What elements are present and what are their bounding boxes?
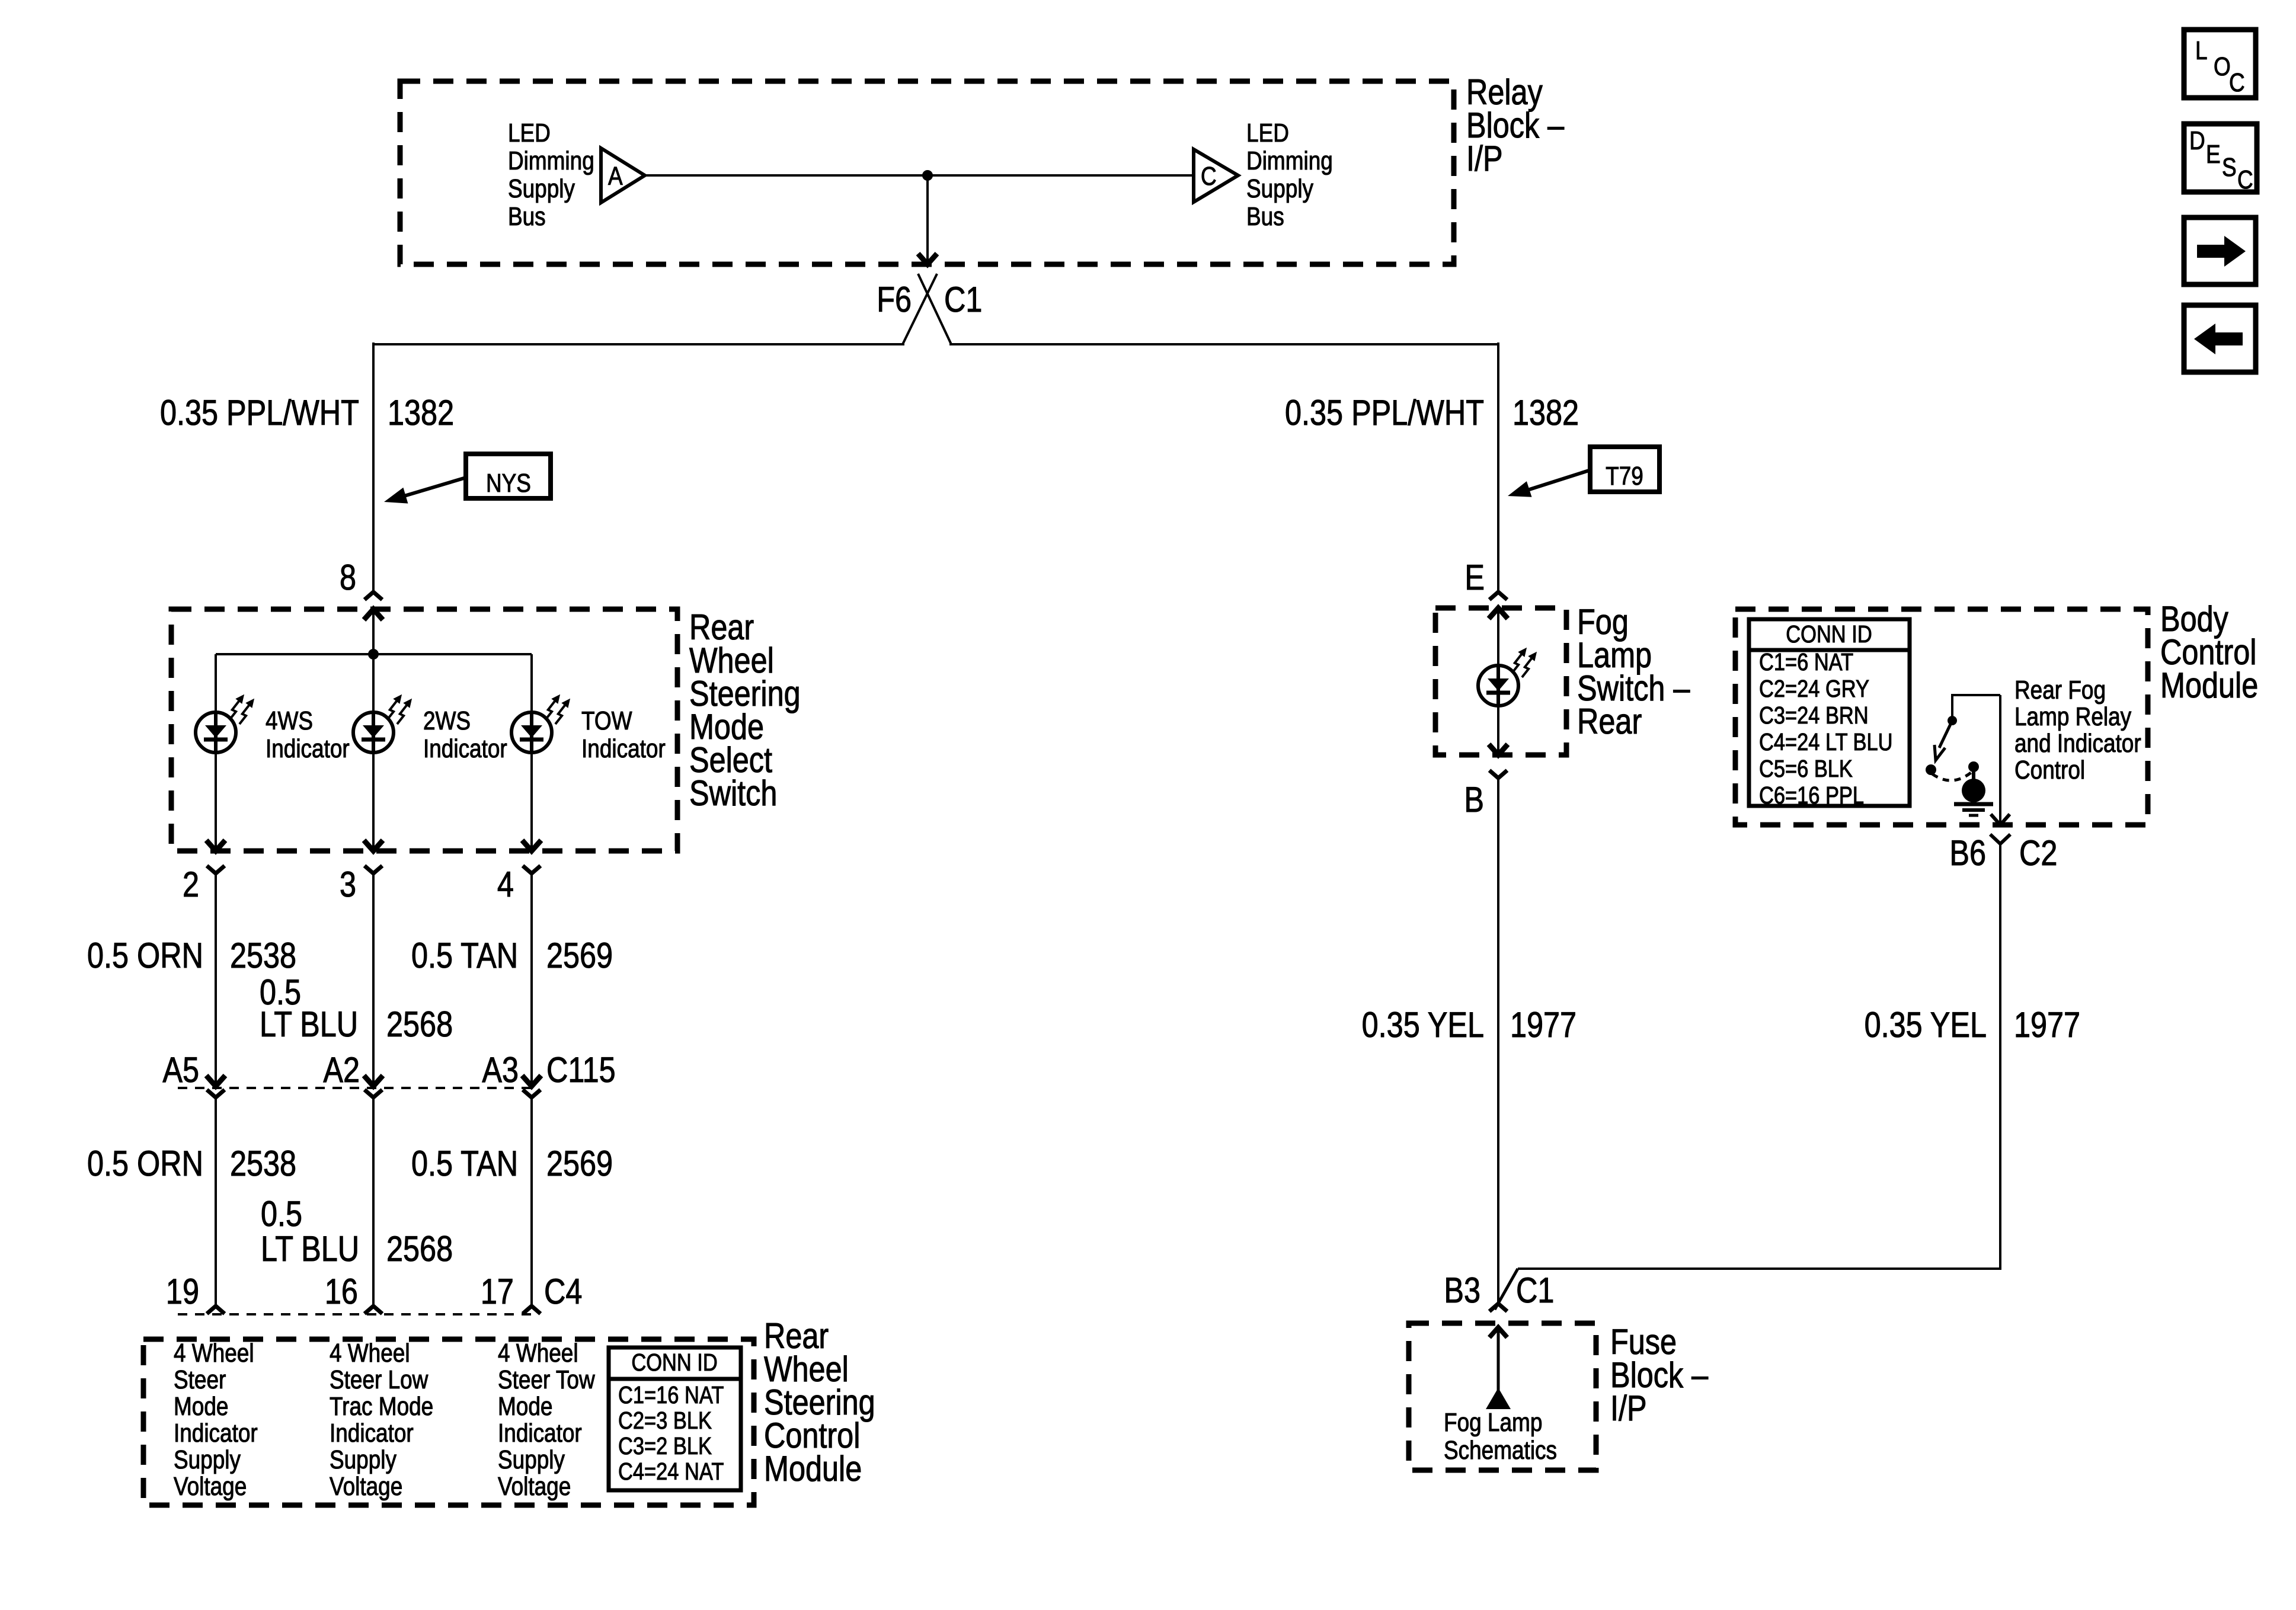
svg-text:A3: A3 <box>482 1050 519 1090</box>
svg-text:C4: C4 <box>544 1272 582 1311</box>
svg-text:Bus: Bus <box>508 201 546 231</box>
bus triangle A <box>601 148 645 203</box>
svg-text:LED: LED <box>508 118 551 148</box>
wire LED supply rail <box>216 653 532 655</box>
relay block I/P dashed box <box>400 81 1454 264</box>
svg-text:2568: 2568 <box>386 1004 453 1044</box>
svg-text:0.5: 0.5 <box>261 1194 302 1234</box>
svg-text:17: 17 <box>481 1272 514 1311</box>
svg-text:2WS: 2WS <box>423 706 471 735</box>
svg-text:C1: C1 <box>944 280 982 319</box>
svg-text:Supply: Supply <box>1246 174 1314 203</box>
wire A2 to pin16 <box>372 1097 375 1306</box>
BCM internal wire down to B6 <box>1999 695 2001 823</box>
RWS CONN ID table box <box>609 1347 741 1490</box>
svg-text:A: A <box>608 161 623 191</box>
male pin arrow at C115 A3 <box>522 1076 541 1086</box>
DESC nav box <box>2184 124 2257 192</box>
wire pin2 to C115 <box>215 873 217 1084</box>
svg-text:C: C <box>2229 68 2245 97</box>
male pin arrow exiting box pin3 <box>364 840 383 851</box>
svg-text:I/P: I/P <box>1466 139 1503 178</box>
svg-text:S: S <box>2222 152 2237 182</box>
junction dot on dimming bus <box>922 170 933 181</box>
wire A3 to pin17 <box>530 1097 533 1306</box>
svg-text:Voltage: Voltage <box>174 1471 247 1501</box>
connector F6/C1 crossing legs <box>918 274 951 344</box>
female connector C115 A3 <box>523 1090 541 1097</box>
svg-text:C2=24 GRY: C2=24 GRY <box>1759 676 1869 702</box>
male pin arrow at C115 A2 <box>364 1076 383 1086</box>
svg-text:C3=2 BLK: C3=2 BLK <box>618 1433 712 1459</box>
wire left vertical drop <box>372 343 375 591</box>
female connector below pin4 <box>523 866 541 873</box>
male pin arrow exiting box pin4 <box>522 840 541 851</box>
svg-text:Module: Module <box>764 1449 862 1489</box>
C115 in-line connector dashed line <box>178 1087 536 1089</box>
wire right vertical drop <box>1497 343 1499 591</box>
wire to 4WS LED <box>215 654 217 851</box>
female connector C115 A2 <box>364 1090 382 1097</box>
wire out of fog lamp LED <box>1497 705 1499 755</box>
svg-text:TOW: TOW <box>581 706 632 735</box>
svg-text:1977: 1977 <box>1510 1005 1576 1045</box>
svg-text:2538: 2538 <box>230 1144 296 1183</box>
junction dot inside switch box <box>368 649 379 660</box>
svg-text:Lamp Relay: Lamp Relay <box>2014 702 2132 731</box>
svg-text:E: E <box>1464 558 1485 597</box>
svg-text:Trac Mode: Trac Mode <box>330 1391 433 1421</box>
svg-text:C1=6 NAT: C1=6 NAT <box>1759 649 1853 676</box>
svg-text:L: L <box>2195 36 2208 65</box>
wire A5 to pin19 <box>215 1097 217 1306</box>
svg-text:2538: 2538 <box>230 936 296 975</box>
svg-text:2569: 2569 <box>546 936 613 975</box>
svg-text:0.5 ORN: 0.5 ORN <box>87 936 203 975</box>
svg-text:8: 8 <box>340 558 356 597</box>
svg-text:Indicator: Indicator <box>581 734 666 763</box>
switch blade with arrow <box>1939 721 1952 748</box>
svg-text:LED: LED <box>1246 118 1289 148</box>
svg-text:C6=16 PPL: C6=16 PPL <box>1759 782 1864 809</box>
svg-text:C115: C115 <box>546 1050 616 1090</box>
svg-text:I/P: I/P <box>1610 1388 1647 1428</box>
fuse block I/P dashed box <box>1409 1323 1596 1470</box>
rear wheel steering control module dashed box <box>143 1339 754 1505</box>
svg-text:C1=16 NAT: C1=16 NAT <box>618 1382 724 1409</box>
female connector C4 pin17 <box>523 1306 541 1314</box>
svg-text:NYS: NYS <box>486 468 531 498</box>
svg-text:0.35 YEL: 0.35 YEL <box>1362 1005 1484 1045</box>
svg-text:C: C <box>1201 161 1217 191</box>
svg-text:Dimming: Dimming <box>1246 146 1333 175</box>
svg-text:LT BLU: LT BLU <box>260 1004 358 1044</box>
wire BCM horizontal run <box>1518 1267 2001 1270</box>
svg-text:Bus: Bus <box>1246 201 1284 231</box>
svg-text:B: B <box>1464 780 1484 820</box>
rear wheel steering mode select switch dashed box <box>171 609 677 851</box>
wire diagonal into B3 connector <box>1495 1269 1518 1310</box>
female connector at pin E <box>1489 592 1507 600</box>
svg-text:and Indicator: and Indicator <box>2014 728 2141 758</box>
svg-text:Indicator: Indicator <box>498 1418 582 1448</box>
switch left contact dot <box>1926 764 1936 775</box>
svg-text:4: 4 <box>497 865 514 904</box>
female connector below pin2 <box>207 866 225 873</box>
svg-text:C: C <box>2237 165 2253 194</box>
svg-text:Supply: Supply <box>508 174 575 203</box>
svg-text:Supply: Supply <box>174 1445 241 1474</box>
svg-text:Rear Fog: Rear Fog <box>2014 675 2106 705</box>
LOC nav box <box>2184 30 2256 98</box>
wire to TOW LED <box>530 654 533 851</box>
svg-text:Steer Low: Steer Low <box>330 1365 428 1394</box>
svg-text:Supply: Supply <box>498 1445 565 1474</box>
svg-text:E: E <box>2206 139 2221 169</box>
svg-text:C3=24 BRN: C3=24 BRN <box>1759 702 1869 729</box>
svg-text:0.35 PPL/WHT: 0.35 PPL/WHT <box>1285 393 1484 433</box>
svg-text:Indicator: Indicator <box>330 1418 414 1448</box>
previous-page arrow box <box>2184 305 2256 372</box>
svg-text:2569: 2569 <box>546 1144 613 1183</box>
svg-text:C2: C2 <box>2019 833 2057 873</box>
NYS leader arrow <box>398 478 466 498</box>
svg-text:2568: 2568 <box>386 1229 453 1269</box>
female connector below pin3 <box>364 866 382 873</box>
male pin arrow exiting box pin2 <box>206 840 225 851</box>
page reference triangle to fog lamp schematics <box>1486 1388 1511 1409</box>
male pin arrow entering fuse block <box>1489 1327 1507 1337</box>
svg-text:Switch: Switch <box>689 773 777 813</box>
svg-text:D: D <box>2189 126 2205 155</box>
switch dashed travel arc <box>1932 772 1972 780</box>
svg-text:Supply: Supply <box>330 1445 397 1474</box>
svg-text:C2=3 BLK: C2=3 BLK <box>618 1407 712 1434</box>
female connector below BCM B6 <box>1990 834 2010 844</box>
wire BCM B6 down <box>1999 844 2001 1267</box>
svg-text:Indicator: Indicator <box>266 734 350 763</box>
T79 leader arrow <box>1522 470 1591 492</box>
svg-text:T79: T79 <box>1606 461 1643 491</box>
LED fog lamp switch indicator <box>1478 665 1518 706</box>
svg-text:Indicator: Indicator <box>423 734 507 763</box>
svg-text:Voltage: Voltage <box>330 1471 402 1501</box>
svg-text:3: 3 <box>340 865 356 904</box>
svg-text:LT BLU: LT BLU <box>261 1229 359 1269</box>
wire into fog lamp LED <box>1497 609 1499 666</box>
svg-text:4 Wheel: 4 Wheel <box>330 1338 410 1368</box>
LED 4WS indicator <box>196 712 236 753</box>
female connector below fog switch pin B <box>1489 770 1507 778</box>
svg-text:Schematics: Schematics <box>1444 1435 1557 1465</box>
male pin arrow entering switch box top <box>364 609 383 620</box>
svg-text:B6: B6 <box>1949 833 1986 873</box>
C4 in-line connector dashed line <box>178 1313 536 1315</box>
wire pin8 into switch <box>372 610 375 654</box>
svg-text:Mode: Mode <box>174 1391 228 1421</box>
svg-text:C1: C1 <box>1516 1270 1554 1310</box>
female connector at pin 8 <box>364 592 382 600</box>
svg-text:19: 19 <box>166 1272 199 1311</box>
T79 splice box <box>1590 447 1659 492</box>
male pin arrow entering fog switch top <box>1489 608 1508 619</box>
ground stem <box>1972 767 1975 780</box>
BCM CONN ID table box <box>1749 619 1910 806</box>
female connector C4 pin16 <box>364 1306 382 1314</box>
wire fog switch B down to B3 <box>1497 778 1499 1302</box>
female connector C4 pin19 <box>207 1306 225 1314</box>
svg-text:C4=24 NAT: C4=24 NAT <box>618 1458 724 1485</box>
male pin arrow exiting BCM bottom <box>1991 814 2010 825</box>
LED 2WS indicator <box>353 712 394 753</box>
svg-text:Module: Module <box>2160 665 2258 705</box>
svg-text:0.5 TAN: 0.5 TAN <box>411 936 518 975</box>
svg-text:1382: 1382 <box>1512 393 1579 433</box>
svg-text:Mode: Mode <box>498 1391 552 1421</box>
svg-text:0.35 YEL: 0.35 YEL <box>1865 1005 1987 1045</box>
svg-text:16: 16 <box>325 1272 358 1311</box>
ground symbol bars <box>1954 802 1993 806</box>
wire inside fuse block <box>1497 1329 1500 1391</box>
svg-text:CONN ID: CONN ID <box>1786 621 1872 648</box>
body control module dashed box <box>1735 609 2148 825</box>
wire pin3 to C115 <box>372 873 375 1084</box>
svg-text:Fog Lamp: Fog Lamp <box>1444 1407 1542 1437</box>
svg-text:A2: A2 <box>323 1050 360 1090</box>
svg-text:B3: B3 <box>1444 1270 1480 1310</box>
svg-text:C5=6 BLK: C5=6 BLK <box>1759 756 1853 782</box>
LED TOW indicator <box>511 712 552 753</box>
wire horizontal left run to left drop <box>373 343 904 345</box>
svg-text:C4=24 LT BLU: C4=24 LT BLU <box>1759 729 1893 756</box>
svg-text:4 Wheel: 4 Wheel <box>498 1338 578 1368</box>
bus triangle C <box>1194 149 1238 202</box>
NYS splice box <box>466 454 551 498</box>
wire bus A to C <box>645 174 1194 177</box>
svg-text:0.5 ORN: 0.5 ORN <box>87 1144 203 1183</box>
switch pivot contact dot <box>1948 716 1957 725</box>
fog lamp switch rear dashed box <box>1435 608 1566 755</box>
svg-text:CONN ID: CONN ID <box>631 1349 717 1376</box>
svg-text:Rear: Rear <box>1577 702 1642 741</box>
svg-text:1977: 1977 <box>2014 1005 2080 1045</box>
female connector at B3 <box>1489 1304 1507 1311</box>
svg-text:Indicator: Indicator <box>174 1418 258 1448</box>
svg-text:Steer Tow: Steer Tow <box>498 1365 595 1394</box>
svg-text:Steer: Steer <box>174 1365 226 1394</box>
svg-text:A5: A5 <box>162 1050 199 1090</box>
male pin arrow at C115 A5 <box>206 1076 225 1086</box>
svg-text:0.5 TAN: 0.5 TAN <box>411 1144 518 1183</box>
wire horizontal right run to right drop <box>949 343 1498 345</box>
ground circle <box>1962 779 1985 802</box>
svg-text:Dimming: Dimming <box>508 146 594 175</box>
wire to 2WS LED <box>372 654 375 851</box>
svg-text:2: 2 <box>183 865 199 904</box>
svg-text:0.35 PPL/WHT: 0.35 PPL/WHT <box>160 393 359 433</box>
svg-text:O: O <box>2214 52 2231 81</box>
female connector C115 A5 <box>207 1090 225 1097</box>
male pin arrow exiting fog switch bottom <box>1489 744 1508 755</box>
BCM internal wire to switch <box>1951 694 1953 721</box>
svg-text:4WS: 4WS <box>266 706 313 735</box>
svg-text:Control: Control <box>2014 755 2085 785</box>
svg-text:Voltage: Voltage <box>498 1471 571 1501</box>
svg-text:1382: 1382 <box>388 393 454 433</box>
switch right contact dot <box>1968 761 1979 772</box>
male pin arrow at relay block bottom edge <box>918 254 937 264</box>
next-page arrow box <box>2184 217 2256 284</box>
svg-text:4 Wheel: 4 Wheel <box>174 1338 254 1368</box>
wire junction down to relay block edge <box>926 175 929 261</box>
svg-text:F6: F6 <box>877 280 912 319</box>
wire pin4 to C115 <box>530 873 533 1084</box>
